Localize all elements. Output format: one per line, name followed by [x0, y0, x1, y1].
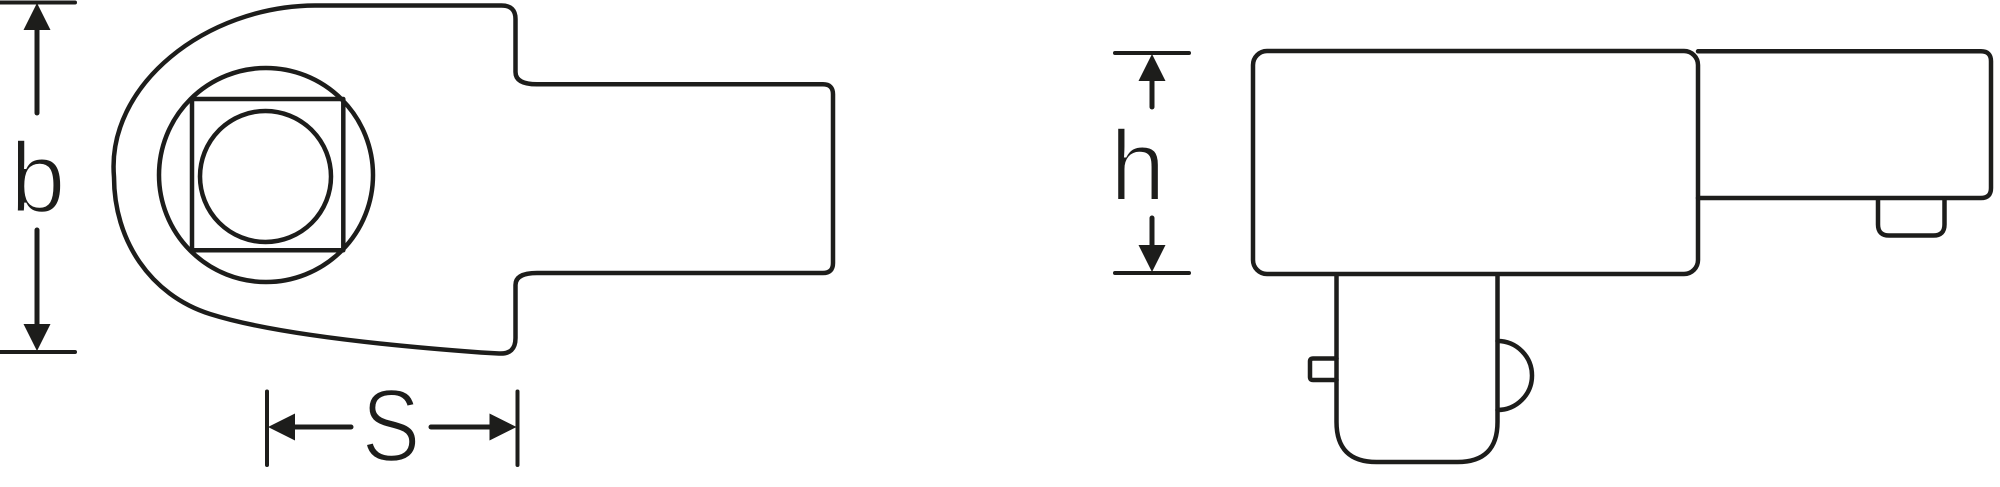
dimension h: top extension tick	[1115, 51, 1189, 55]
dimension b: top extension tick	[0, 1, 75, 5]
dimension h: bottom arrowhead	[1139, 245, 1166, 272]
dimension h: upper arrow shaft	[1150, 80, 1155, 107]
detent ball on stub	[1498, 341, 1533, 410]
tang retaining notch	[1878, 199, 1945, 236]
dimension h: top arrowhead	[1139, 54, 1166, 81]
drive boss outer circle	[159, 68, 373, 282]
dimension S: right arrowhead	[490, 414, 517, 441]
dimension b: bottom extension tick	[0, 350, 75, 354]
svg-text:h: h	[1110, 110, 1166, 222]
dimension b: bottom arrowhead	[24, 324, 51, 351]
drive bore inner circle	[200, 111, 331, 242]
dimension h: lower arrow shaft	[1150, 218, 1155, 246]
square drive stub (side view)	[1337, 275, 1498, 462]
dimension S: right arrow shaft	[431, 425, 492, 430]
side view rectangular tang	[1698, 51, 1991, 198]
side view main body	[1253, 51, 1698, 274]
svg-text:S: S	[362, 369, 421, 484]
dimension h: bottom extension tick	[1115, 271, 1189, 275]
dimension b: lower arrow shaft	[35, 230, 40, 327]
dimension S: right extension tick	[516, 392, 520, 466]
dimension S: left arrowhead	[268, 414, 295, 441]
dimension S: left extension tick	[265, 392, 269, 466]
svg-text:b: b	[10, 122, 66, 234]
dimension S: left arrow shaft	[292, 425, 351, 430]
drive square	[192, 99, 343, 250]
retaining pin on stub	[1310, 359, 1337, 381]
dimension b: upper arrow shaft	[35, 28, 40, 113]
head outline (front view of insert ratchet)	[114, 6, 833, 354]
dimension b: top arrowhead	[24, 3, 51, 30]
